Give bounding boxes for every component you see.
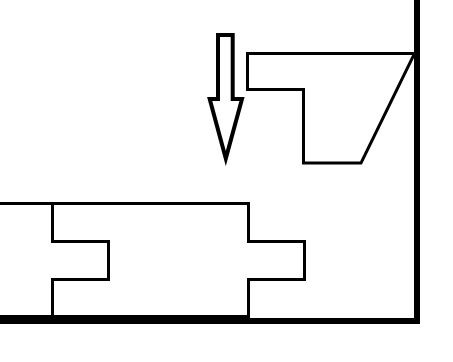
plank bottom edge: [0, 315, 250, 319]
arrow (outlined down arrow): [210, 35, 242, 159]
floor (bottom horizontal thick line): [0, 318, 420, 324]
joint 1 upper vertical: [51, 202, 54, 243]
plank top edge: [0, 202, 250, 205]
tongue 1 top: [51, 240, 110, 243]
wall (right vertical thick line): [414, 0, 420, 324]
chute (funnel-shaped outline at top right): [248, 54, 415, 164]
tongue 2 top: [247, 240, 306, 243]
tongue 1 right vertical: [107, 240, 110, 281]
joint 1 lower vertical: [51, 278, 54, 318]
tongue 1 bottom: [51, 278, 110, 281]
plank right upper vertical: [247, 202, 250, 243]
tongue 2 right vertical: [303, 240, 306, 281]
plank right lower vertical: [247, 278, 250, 318]
tongue 2 bottom: [247, 278, 306, 281]
